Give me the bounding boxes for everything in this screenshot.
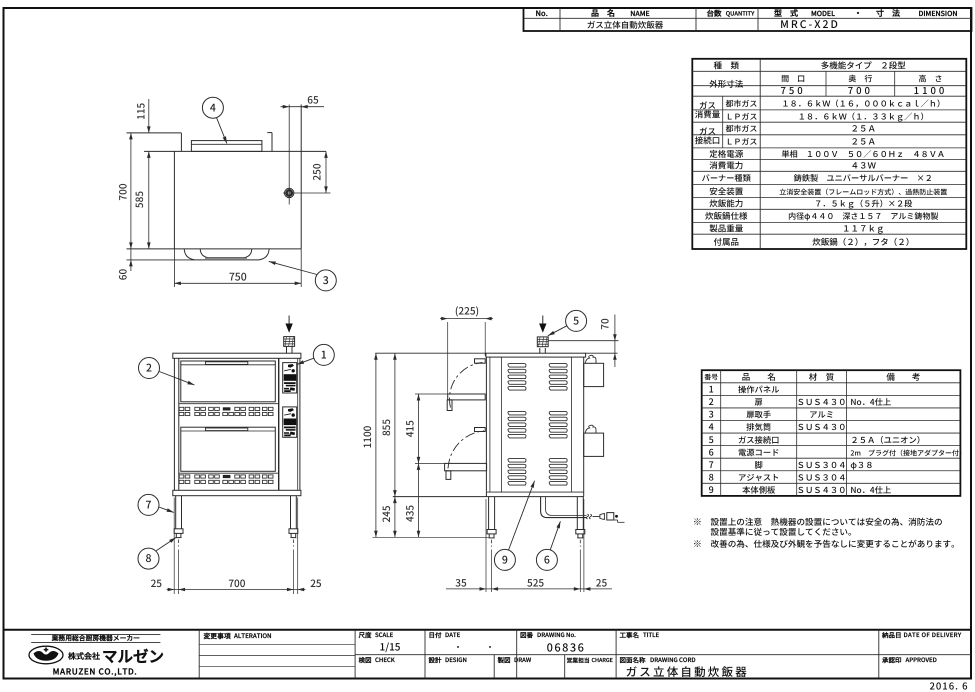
vents lower: [179, 475, 184, 478]
svg-text:株式会社: 株式会社: [68, 651, 100, 662]
svg-text:マルゼン: マルゼン: [102, 645, 164, 667]
dim 115: [148, 99, 150, 133]
svg-text:ＳＵＳ４３０: ＳＵＳ４３０: [797, 396, 847, 408]
svg-text:変更事項: 変更事項: [204, 630, 231, 640]
dim 60: [130, 249, 132, 271]
balloon 8: [138, 548, 159, 569]
svg-text:寸 法: 寸 法: [876, 8, 901, 19]
svg-text:内径φ４４０ 深さ１５７ アルミ鋳物製: 内径φ４４０ 深さ１５７ アルミ鋳物製: [788, 211, 938, 222]
leader 4: [217, 118, 227, 144]
svg-text:外形寸法: 外形寸法: [709, 78, 744, 90]
svg-text:2m プラグ付（接地アダプター付）: 2m プラグ付（接地アダプター付）: [850, 448, 966, 458]
legs front: [175, 496, 177, 529]
upper door: [181, 361, 275, 402]
svg-text:都市ガス: 都市ガス: [725, 124, 757, 135]
balloon 1: [313, 344, 334, 365]
dim 435: [418, 463, 420, 537]
svg-text:尺度: 尺度: [358, 629, 373, 639]
svg-text:図番: 図番: [520, 629, 534, 639]
svg-text:立消安全装置（フレームロッド方式）、過熱防止装置: 立消安全装置（フレームロッド方式）、過熱防止装置: [779, 187, 947, 197]
dim 415: [418, 394, 420, 463]
balloon 2: [139, 358, 160, 379]
maruzen logo: [31, 633, 160, 635]
svg-text:700: 700: [848, 83, 873, 97]
svg-text:設置基準に従って設置してください。: 設置基準に従って設置してください。: [711, 526, 857, 538]
lower door: [181, 427, 275, 471]
svg-text:バーナー種類: バーナー種類: [702, 172, 752, 184]
svg-text:4: 4: [709, 420, 714, 433]
svg-text:525: 525: [527, 574, 544, 589]
svg-text:DATE: DATE: [445, 630, 461, 639]
svg-text:No．4仕上: No．4仕上: [850, 484, 891, 496]
svg-text:電源コード: 電源コード: [738, 446, 780, 458]
svg-text:１１７ｋｇ: １１７ｋｇ: [842, 223, 885, 235]
svg-text:ガス立体自動炊飯器: ガス立体自動炊飯器: [587, 19, 664, 31]
svg-text:ＬＰガス: ＬＰガス: [725, 111, 757, 122]
svg-text:・: ・: [486, 642, 494, 653]
balloon 7: [138, 494, 159, 515]
svg-text:1: 1: [321, 348, 327, 363]
leader 6: [550, 521, 560, 550]
vent band 2: [179, 472, 279, 474]
svg-text:8: 8: [709, 470, 714, 483]
svg-text:MARUZEN CO.,LTD.: MARUZEN CO.,LTD.: [53, 665, 138, 677]
svg-text:品 名: 品 名: [742, 371, 776, 383]
svg-text:750: 750: [229, 269, 247, 284]
svg-text:種 類: 種 類: [713, 59, 739, 71]
svg-text:DESIGN: DESIGN: [445, 655, 467, 664]
svg-text:ＳＵＳ３０４: ＳＵＳ３０４: [797, 459, 847, 471]
svg-text:ＳＵＳ４３０: ＳＵＳ４３０: [797, 421, 847, 433]
svg-text:4: 4: [210, 100, 216, 115]
svg-text:2016. 6: 2016. 6: [929, 679, 968, 692]
control panel 1: [283, 363, 297, 393]
front bottom band: [173, 490, 301, 495]
svg-text:1100: 1100: [914, 83, 948, 97]
svg-text:炊飯能力: 炊飯能力: [709, 198, 743, 210]
svg-text:2: 2: [146, 361, 152, 376]
svg-text:４３Ｗ: ４３Ｗ: [850, 160, 876, 172]
svg-text:都市ガス: 都市ガス: [725, 98, 757, 109]
leader 8: [156, 538, 176, 551]
svg-text:工事名: 工事名: [620, 629, 640, 639]
svg-text:改善の為、仕様及び外観を予告なしに変更することがあります。: 改善の為、仕様及び外観を予告なしに変更することがあります。: [711, 538, 960, 550]
svg-text:No.: No.: [536, 8, 548, 19]
svg-text:No．4仕上: No．4仕上: [850, 396, 891, 408]
svg-text:CHECK: CHECK: [375, 655, 396, 664]
svg-text:アジャスト: アジャスト: [738, 471, 780, 483]
svg-text:炊飯鍋（２），フタ（２）: 炊飯鍋（２），フタ（２）: [812, 236, 914, 248]
svg-text:115: 115: [133, 102, 148, 119]
dims front bottom: [173, 498, 175, 595]
svg-text:扉取手: 扉取手: [746, 409, 771, 421]
front body sides: [173, 358, 175, 490]
svg-text:60: 60: [115, 269, 130, 281]
svg-text:06836: 06836: [547, 640, 586, 656]
svg-text:２５Ａ: ２５Ａ: [850, 123, 876, 135]
svg-text:設計: 設計: [429, 654, 443, 664]
vent band 1: [179, 403, 279, 405]
svg-text:検図: 検図: [359, 654, 373, 664]
balloon 9: [494, 549, 515, 570]
gas fitting (side top): [539, 348, 541, 353]
svg-text:番号: 番号: [704, 373, 718, 383]
svg-text:MRC-X2D: MRC-X2D: [780, 17, 840, 32]
svg-text:7: 7: [146, 498, 152, 513]
svg-text:接続口: 接続口: [695, 135, 721, 147]
svg-text:3: 3: [709, 408, 714, 421]
svg-text:1/15: 1/15: [380, 639, 401, 654]
gas pipe (front top): [286, 346, 288, 353]
svg-text:納品日: 納品日: [881, 629, 902, 639]
svg-text:750: 750: [780, 83, 805, 97]
svg-text:3: 3: [323, 273, 329, 288]
control panel divider: [278, 358, 280, 490]
svg-text:(225): (225): [455, 302, 479, 317]
ground ext line: [373, 536, 489, 538]
svg-text:鋳鉄製 ユニバーサルバーナー ×２: 鋳鉄製 ユニバーサルバーナー ×２: [794, 172, 933, 184]
svg-text:安全装置: 安全装置: [709, 185, 744, 197]
svg-text:製図: 製図: [497, 654, 512, 664]
svg-text:多機能タイプ ２段型: 多機能タイプ ２段型: [821, 59, 907, 71]
svg-text:ＬＰガス: ＬＰガス: [725, 137, 757, 148]
svg-text:品 名: 品 名: [591, 8, 615, 19]
svg-text:5: 5: [709, 433, 714, 446]
svg-text:585: 585: [131, 191, 146, 208]
svg-text:25: 25: [310, 575, 322, 590]
dim 585: [148, 151, 150, 249]
svg-text:図面名称: 図面名称: [620, 654, 647, 664]
svg-text:DRAWING CORD: DRAWING CORD: [650, 655, 696, 664]
dim (225): [447, 322, 449, 394]
svg-text:ガス立体自動炊飯器: ガス立体自動炊飯器: [626, 664, 749, 680]
svg-text:245: 245: [378, 505, 393, 522]
legs side: [488, 497, 490, 530]
dim 700 (plan left): [130, 133, 132, 249]
leader 3: [269, 261, 317, 274]
svg-text:35: 35: [455, 574, 467, 589]
balloon 3: [315, 270, 336, 291]
svg-text:700: 700: [115, 183, 130, 200]
open lower door: [445, 463, 487, 470]
open upper door: [448, 394, 486, 400]
svg-text:ＳＵＳ４３０: ＳＵＳ４３０: [797, 484, 847, 496]
svg-text:備 考: 備 考: [886, 371, 920, 383]
dim 250: [325, 151, 327, 193]
plan body outline: [127, 132, 182, 134]
svg-text:700: 700: [228, 575, 245, 590]
title block: [4, 629, 972, 631]
svg-text:9: 9: [502, 553, 508, 568]
svg-text:6: 6: [709, 445, 714, 458]
svg-text:435: 435: [401, 505, 416, 522]
svg-text:付属品: 付属品: [713, 236, 739, 248]
svg-text:排気筒: 排気筒: [746, 421, 771, 433]
side control boxes: [584, 363, 604, 386]
svg-text:７．５ｋｇ（５升）×２段: ７．５ｋｇ（５升）×２段: [814, 198, 912, 210]
svg-text:日付: 日付: [429, 629, 443, 639]
svg-text:25: 25: [596, 574, 608, 589]
svg-text:7: 7: [709, 458, 714, 471]
svg-text:１８．６ｋＷ（１．３３ｋｇ／ｈ）: １８．６ｋＷ（１．３３ｋｇ／ｈ）: [798, 110, 929, 122]
side louvers: [508, 364, 526, 368]
svg-text:9: 9: [709, 483, 714, 496]
power cord: [541, 497, 587, 518]
dim 70: [548, 340, 618, 342]
svg-text:TITLE: TITLE: [643, 630, 660, 639]
closed door handles (side): [475, 359, 486, 363]
svg-text:65: 65: [307, 92, 319, 107]
svg-text:承認印: 承認印: [881, 654, 902, 664]
svg-text:NAME: NAME: [630, 9, 650, 19]
svg-text:・: ・: [454, 642, 462, 653]
svg-text:単相 １００Ｖ ５０／６０Ｈｚ ４８ＶＡ: 単相 １００Ｖ ５０／６０Ｈｚ ４８ＶＡ: [781, 148, 945, 160]
leader 7: [159, 507, 174, 512]
svg-text:製品重量: 製品重量: [709, 223, 744, 235]
svg-text:DIMENSION: DIMENSION: [918, 9, 957, 19]
balloon 6: [536, 549, 557, 570]
svg-text:ＳＵＳ３０４: ＳＵＳ３０４: [797, 471, 847, 483]
vents upper: [179, 407, 184, 410]
flow arrow (front): [288, 316, 290, 325]
svg-text:φ３８: φ３８: [850, 459, 873, 471]
side bottom band: [486, 491, 583, 493]
svg-text:6: 6: [544, 553, 550, 568]
side body edges: [485, 357, 487, 492]
svg-text:本体側板: 本体側板: [742, 484, 776, 496]
svg-text:250: 250: [308, 163, 323, 180]
svg-text:業務用総合厨房機器メーカー: 業務用総合厨房機器メーカー: [51, 633, 141, 643]
balloon 4: [202, 97, 223, 118]
svg-text:※: ※: [693, 537, 702, 550]
exhaust duct (top): [191, 141, 262, 152]
svg-text:8: 8: [146, 551, 152, 566]
flow arrow (side): [542, 316, 544, 325]
svg-text:営業担当: 営業担当: [567, 655, 590, 664]
svg-text:台数: 台数: [707, 8, 722, 19]
control panel 2: [283, 407, 297, 437]
dims side bottom: [485, 499, 487, 592]
svg-text:材 質: 材 質: [809, 371, 835, 383]
svg-text:855: 855: [378, 419, 393, 436]
svg-text:CHARGE: CHARGE: [592, 656, 614, 664]
specification table: [692, 59, 966, 249]
parts list table: [702, 370, 961, 496]
svg-text:消費量: 消費量: [695, 109, 721, 121]
svg-text:DRAWING No.: DRAWING No.: [537, 630, 576, 639]
balloon 5: [566, 310, 587, 331]
svg-text:415: 415: [401, 420, 416, 437]
svg-text:ALTERATION: ALTERATION: [233, 631, 272, 640]
svg-text:アルミ: アルミ: [809, 409, 834, 421]
dim 855: [394, 353, 396, 496]
svg-text:※: ※: [693, 515, 702, 528]
svg-text:1100: 1100: [359, 425, 374, 448]
svg-text:2: 2: [709, 395, 714, 408]
door bulge / handle (plan): [127, 259, 195, 261]
dim 750: [173, 249, 175, 287]
dim 65: [281, 106, 325, 108]
svg-text:70: 70: [596, 318, 611, 330]
side top cap: [486, 353, 586, 357]
svg-text:DRAW: DRAW: [514, 655, 532, 664]
leader 5: [548, 326, 567, 336]
dim 245: [393, 497, 397, 504]
leader 9: [509, 481, 535, 550]
svg-text:・: ・: [854, 8, 862, 19]
svg-text:２５Ａ: ２５Ａ: [850, 136, 876, 148]
svg-text:5: 5: [573, 314, 579, 329]
svg-text:炊飯鍋仕様: 炊飯鍋仕様: [705, 210, 748, 222]
svg-text:操作パネル: 操作パネル: [738, 383, 780, 395]
svg-text:25: 25: [151, 575, 163, 590]
leader 2: [159, 372, 194, 386]
svg-text:APPROVED: APPROVED: [905, 655, 937, 664]
svg-text:２５Ａ（ユニオン）: ２５Ａ（ユニオン）: [850, 434, 925, 446]
plan rear corner bracket: [267, 132, 272, 134]
gas inlet hole (plan): [288, 105, 290, 205]
svg-text:１８．６ｋＷ（１６，０００ｋｃａｌ／ｈ）: １８．６ｋＷ（１６，０００ｋｃａｌ／ｈ）: [781, 97, 945, 109]
svg-text:ガス接続口: ガス接続口: [738, 434, 780, 446]
front top cap: [173, 353, 301, 358]
svg-text:定格電源: 定格電源: [709, 148, 744, 160]
svg-text:QUANTITY: QUANTITY: [726, 9, 755, 18]
plug: [586, 514, 591, 519]
svg-text:1: 1: [709, 382, 714, 395]
svg-text:扉: 扉: [755, 396, 763, 408]
leader 1: [297, 358, 314, 364]
top title table: [524, 8, 972, 31]
svg-text:脚: 脚: [755, 459, 763, 471]
svg-text:消費電力: 消費電力: [709, 160, 743, 172]
svg-text:DATE OF DELIVERY: DATE OF DELIVERY: [904, 630, 962, 639]
dim 1100: [375, 353, 377, 537]
